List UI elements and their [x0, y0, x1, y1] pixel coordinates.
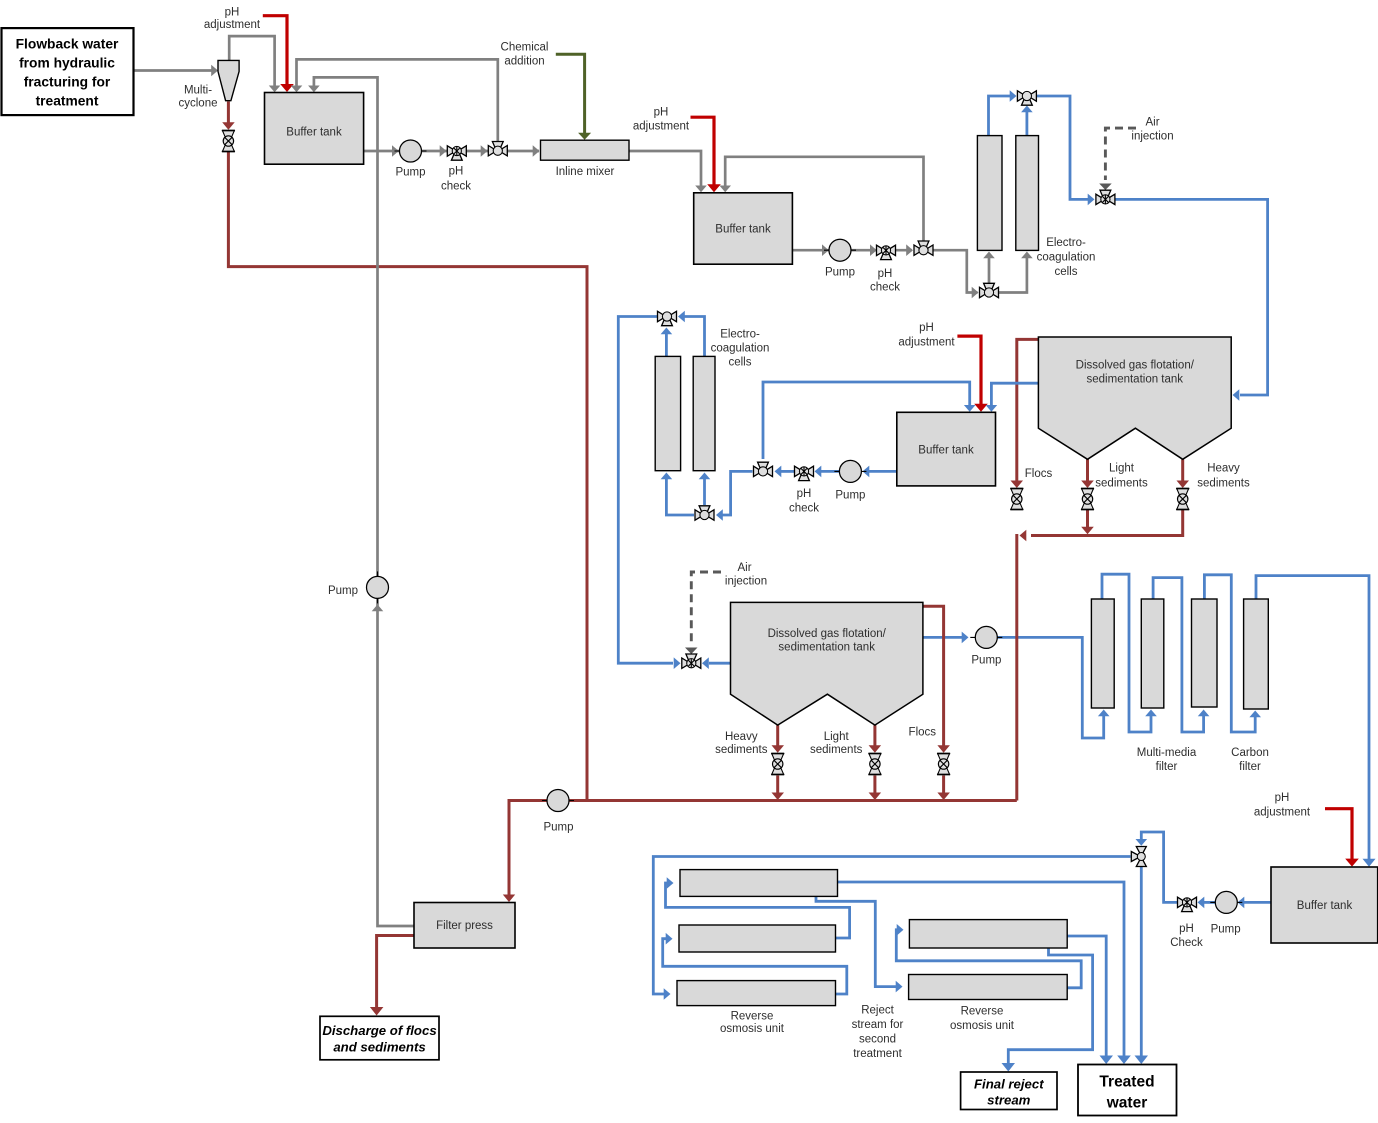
svg-text:sediments: sediments: [715, 744, 768, 756]
wire 3-way valve recycle to buffer tank 3 (blue): [763, 382, 970, 459]
svg-text:Flowback water: Flowback water: [16, 37, 119, 52]
flocs valve DGF1: [1010, 489, 1023, 510]
heavy sediments valve DGF2: [771, 754, 784, 775]
svg-text:adjustment: adjustment: [898, 337, 955, 349]
wire RO2a reject to final reject stream (blue): [1008, 946, 1092, 1063]
electro-coagulation cell 2a: [655, 356, 680, 470]
svg-text:Pump: Pump: [971, 655, 1001, 667]
svg-text:treatment: treatment: [36, 94, 99, 109]
svg-text:Pump: Pump: [328, 585, 358, 597]
svg-text:coagulation: coagulation: [1037, 252, 1096, 264]
carbon filter F4: [1244, 599, 1269, 709]
svg-text:Final reject: Final reject: [974, 1077, 1044, 1092]
wire sludge collector to filter press (dark red): [509, 801, 1017, 896]
svg-text:pH: pH: [797, 488, 812, 500]
svg-text:Buffer tank: Buffer tank: [1297, 900, 1353, 912]
svg-text:Filter press: Filter press: [436, 920, 493, 932]
svg-text:Flocs: Flocs: [1025, 468, 1053, 480]
svg-text:cells: cells: [1054, 266, 1077, 278]
svg-text:Buffer tank: Buffer tank: [715, 224, 771, 236]
wire buffer tank 2 to electro-coagulation cells (gray): [792, 249, 912, 252]
svg-text:check: check: [789, 503, 819, 515]
reverse osmosis vessel RO1b: [679, 925, 836, 952]
svg-text:Heavy: Heavy: [725, 731, 758, 743]
wire chemical addition to inline mixer (green): [556, 54, 585, 133]
wire cyclone overflow to buffer tank 1 (gray): [229, 36, 274, 86]
electro-coagulation cell 1b: [1016, 136, 1039, 251]
svg-text:sediments: sediments: [810, 744, 863, 756]
source box: flowback water: [2, 28, 134, 115]
svg-text:water: water: [1106, 1095, 1148, 1112]
svg-text:stream for: stream for: [852, 1019, 904, 1031]
svg-text:Reverse: Reverse: [961, 1006, 1004, 1018]
wire EC valve to cell 2 (gray): [999, 258, 1027, 293]
air injection valve V7: [1096, 190, 1115, 204]
pump P6: [367, 571, 389, 603]
wire feed to multi-cyclone (gray): [134, 69, 213, 72]
reverse osmosis vessel RO2b: [909, 975, 1068, 1000]
wire pH Check 4 to RO split valve (blue): [1141, 832, 1177, 902]
wire pH check 3 to 3-way valve (blue): [780, 470, 794, 473]
pH Check valve V13: [1178, 897, 1197, 911]
wire EC valve to cell 1 (gray): [988, 258, 991, 284]
svg-text:pH: pH: [1179, 923, 1194, 935]
three-way valve V9: [754, 462, 773, 476]
wire EC top valve to air valve 1 (blue): [1037, 96, 1088, 199]
svg-text:cyclone: cyclone: [179, 98, 218, 110]
svg-text:Pump: Pump: [1211, 924, 1241, 936]
svg-text:cells: cells: [728, 357, 751, 369]
light sediments valve DGF1: [1081, 489, 1094, 510]
multi-cyclone: [218, 60, 239, 100]
wire RO split valve bypass to treated water (blue): [1140, 867, 1143, 1058]
pump P4: [970, 626, 1002, 648]
svg-text:Inline mixer: Inline mixer: [556, 166, 615, 178]
wire DGF tank 2 outlet to pump (blue): [923, 636, 962, 639]
pump P3: [834, 460, 866, 482]
svg-text:Air: Air: [737, 562, 751, 574]
svg-text:injection: injection: [1131, 131, 1173, 143]
wire DGF tank 2 heavy sediments line (dark red): [776, 725, 779, 746]
svg-text:Carbon: Carbon: [1231, 747, 1269, 759]
svg-text:filter: filter: [1156, 761, 1178, 773]
RO split valve V14: [1131, 847, 1146, 867]
svg-text:pH: pH: [654, 107, 669, 119]
heavy sediments valve DGF1: [1176, 489, 1189, 510]
inline mixer: [541, 140, 630, 160]
air injection valve V12: [682, 654, 701, 668]
wire pump to multi-media filter F1 (blue): [997, 637, 1104, 738]
svg-text:Light: Light: [824, 731, 850, 743]
svg-text:pH: pH: [919, 322, 934, 334]
wire DGF tank 1 flocs line (dark red): [1017, 339, 1039, 481]
wire pH adjustment to buffer tank 4 (red): [1325, 809, 1352, 861]
wire DGF tank 2 heavy valve to collector (dark red): [776, 776, 779, 794]
wire buffer tank 3 to pump (blue): [868, 470, 897, 473]
svg-text:sedimentation tank: sedimentation tank: [1087, 374, 1184, 386]
wire carbon filter to buffer tank 4 (blue): [1256, 576, 1369, 861]
svg-text:check: check: [441, 181, 471, 193]
wire air valve 1 to DGF tank 1 (blue): [1115, 199, 1267, 395]
wire air injection 2 (dashed gray): [691, 572, 721, 644]
wire multi-media filter chain F2-F3 (blue): [1153, 578, 1204, 732]
light sediments valve DGF2: [868, 754, 881, 775]
svg-text:Air: Air: [1145, 117, 1159, 129]
wire DGF tank 1 light sediments line (dark red): [1086, 459, 1089, 481]
svg-text:osmosis unit: osmosis unit: [720, 1023, 785, 1035]
wire pH adjustment to buffer tank 1 (red): [263, 16, 287, 86]
svg-text:from hydraulic: from hydraulic: [19, 56, 115, 71]
wire EC2 top valve to air valve 2 (blue): [618, 317, 673, 664]
final reject stream box: [961, 1072, 1057, 1110]
filter press: [414, 903, 515, 949]
three-way valve after pH check V2: [488, 142, 507, 156]
svg-text:sedimentation tank: sedimentation tank: [778, 642, 875, 654]
wire DGF tank 2 light sediments line (dark red): [873, 725, 876, 746]
multi-media filter F3: [1192, 599, 1218, 707]
svg-text:pH: pH: [449, 166, 464, 178]
wire DGF tank 1 heavy sediments line (dark red): [1181, 459, 1184, 481]
wire multi-media filter chain F1-F2 (blue): [1102, 574, 1151, 732]
wire recycle from 3-way valve to buffer tank 1 (gray): [297, 59, 498, 142]
svg-text:adjustment: adjustment: [633, 121, 690, 133]
pH check valve V3: [877, 245, 896, 259]
svg-text:Multi-: Multi-: [184, 85, 212, 97]
reverse osmosis vessel RO1c: [677, 981, 836, 1006]
svg-text:adjustment: adjustment: [1254, 807, 1311, 819]
wire 3-way valve to EC2 bottom valve (blue): [722, 471, 753, 515]
svg-text:check: check: [870, 282, 900, 294]
wire air injection 1 (dashed gray): [1105, 128, 1136, 180]
wire DGF tank 1 outlet to buffer tank 3 (blue): [991, 383, 1038, 406]
svg-text:Multi-media: Multi-media: [1137, 747, 1197, 759]
wire RO1c to RO1b (blue): [663, 939, 847, 994]
pump P2: [824, 239, 856, 261]
pump P7: [1210, 891, 1242, 913]
svg-text:Flocs: Flocs: [909, 727, 937, 739]
wire EC2 bottom valve to cell A (blue): [666, 479, 694, 515]
svg-text:osmosis unit: osmosis unit: [950, 1020, 1015, 1032]
wire RO1b to RO1a (blue): [666, 883, 850, 938]
multi-media filter F1: [1091, 599, 1114, 708]
wire RO1a permeate to treated water (blue): [838, 882, 1125, 1058]
svg-text:Discharge of flocs: Discharge of flocs: [322, 1023, 436, 1038]
svg-text:filter: filter: [1239, 761, 1261, 773]
svg-text:Chemical: Chemical: [501, 42, 549, 54]
pump P1: [395, 140, 427, 162]
svg-text:and sediments: and sediments: [333, 1040, 425, 1055]
dissolved gas flotation/sedimentation tank 2: [731, 602, 923, 725]
wire EC cell 1 to top valve (blue): [989, 96, 1011, 136]
EC2 bottom three-way valve V11: [695, 506, 714, 520]
svg-text:Pump: Pump: [835, 490, 865, 502]
pump P5: [542, 790, 574, 812]
EC top three-way valve V6: [1017, 91, 1036, 105]
electro-coagulation cell 1a: [977, 136, 1002, 251]
svg-text:Reverse: Reverse: [731, 1011, 774, 1023]
svg-text:fracturing for: fracturing for: [24, 75, 111, 90]
wire cyclone valve to sludge collector (dark red): [228, 152, 587, 801]
wire EC2 cell A to top valve (blue): [665, 334, 668, 356]
svg-text:Buffer tank: Buffer tank: [286, 127, 342, 139]
wire DGF tank 2 inlet line (blue): [709, 662, 731, 665]
wire DGF tank 1 collector (dark red): [1031, 510, 1183, 536]
svg-text:pH: pH: [878, 268, 893, 280]
svg-text:Light: Light: [1109, 463, 1135, 475]
wire RO2b to RO2a (blue): [896, 930, 1081, 988]
wire EC2 bottom valve to cell B (blue): [703, 479, 706, 505]
svg-text:Pump: Pump: [825, 267, 855, 279]
pH check valve V1: [447, 146, 466, 160]
wire pH adjustment to buffer tank 2 (red): [691, 117, 715, 186]
svg-text:Reject: Reject: [861, 1005, 894, 1017]
svg-text:sediments: sediments: [1095, 477, 1148, 489]
wire DGF tank 2 flocs line (dark red): [923, 606, 944, 746]
svg-text:injection: injection: [725, 576, 767, 588]
svg-text:Check: Check: [1170, 937, 1203, 949]
svg-text:Dissolved gas flotation/: Dissolved gas flotation/: [1076, 360, 1195, 372]
wire filter chain F3-F4 (blue): [1204, 575, 1255, 732]
wire DGF tank 2 light valve to collector (dark red): [873, 776, 876, 794]
reverse osmosis vessel RO1a: [680, 870, 838, 897]
wire EC cell 2 to top valve (blue): [1026, 112, 1029, 136]
wire pump to pH Check 4 (blue): [1203, 901, 1216, 904]
wire RO2a permeate to treated water (blue): [1067, 936, 1106, 1058]
wire inline mixer to buffer tank 2 (gray): [629, 151, 701, 187]
wire multi-cyclone underflow (dark red): [227, 102, 230, 124]
svg-text:adjustment: adjustment: [204, 19, 261, 31]
svg-text:second: second: [859, 1034, 896, 1046]
buffer tank B2: [694, 193, 793, 264]
wire buffer tank 1 to inline mixer (gray): [364, 150, 539, 153]
svg-text:treatment: treatment: [853, 1048, 902, 1060]
wire filter press to discharge (dark red): [377, 936, 414, 1008]
EC2 top three-way valve V10: [658, 311, 677, 325]
svg-text:Electro-: Electro-: [1046, 237, 1086, 249]
svg-text:Pump: Pump: [395, 167, 425, 179]
dissolved gas flotation/sedimentation tank 1: [1038, 337, 1231, 459]
svg-text:pH: pH: [1275, 792, 1290, 804]
valve below multi-cyclone: [222, 131, 235, 152]
buffer tank B3: [897, 412, 996, 486]
EC bottom three-way valve V5: [980, 283, 999, 297]
wire filter press filtrate to buffer tank 1 (gray): [314, 77, 414, 926]
treated water box: [1078, 1065, 1177, 1116]
svg-text:addition: addition: [504, 56, 544, 68]
multi-media filter F2: [1141, 599, 1164, 708]
wire recycle from 3-way valve to buffer tank 2 (gray): [725, 157, 923, 242]
wire pump to pH check 3 (blue): [820, 470, 840, 473]
wire DGF tank 1 light valve outlet (dark red): [1086, 510, 1089, 528]
svg-text:Buffer tank: Buffer tank: [918, 445, 974, 457]
svg-text:pH: pH: [225, 7, 240, 19]
buffer tank B4: [1271, 867, 1378, 943]
pH check valve V8: [795, 466, 814, 480]
svg-text:Electro-: Electro-: [720, 329, 760, 341]
buffer tank B1: [265, 93, 364, 165]
wire RO1a reject to RO unit 2 (blue): [816, 896, 896, 986]
svg-text:coagulation: coagulation: [711, 343, 770, 355]
flocs valve DGF2: [937, 754, 950, 775]
svg-text:sediments: sediments: [1197, 477, 1250, 489]
reverse osmosis vessel RO2a: [909, 920, 1067, 948]
three-way valve V4: [914, 241, 933, 255]
svg-text:Pump: Pump: [543, 822, 573, 834]
svg-text:Treated: Treated: [1099, 1074, 1154, 1091]
electro-coagulation cell 2b: [693, 356, 715, 470]
svg-text:Heavy: Heavy: [1207, 463, 1240, 475]
wire RO split valve to RO unit 1 feed (blue): [653, 857, 1130, 995]
wire pH adjustment to buffer tank 3 (red): [957, 336, 981, 405]
svg-text:Dissolved gas flotation/: Dissolved gas flotation/: [768, 628, 887, 640]
svg-text:stream: stream: [987, 1093, 1031, 1108]
wire buffer tank 4 to pump (blue): [1243, 901, 1271, 904]
wire DGF tank 2 flocs valve to collector (dark red): [942, 776, 945, 794]
wire EC2 cell B to top valve (blue): [684, 317, 705, 357]
discharge box: [320, 1016, 439, 1060]
